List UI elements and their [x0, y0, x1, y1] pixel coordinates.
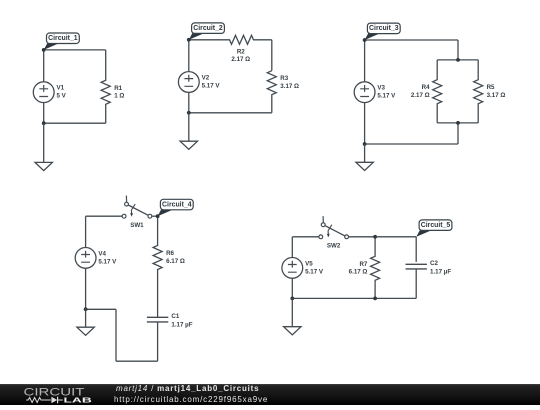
ground — [77, 309, 94, 335]
wire — [271, 40, 273, 71]
svg-text:SW1: SW1 — [130, 222, 144, 229]
svg-text:6.17 Ω: 6.17 Ω — [166, 258, 185, 265]
svg-text:Circuit_2: Circuit_2 — [193, 25, 223, 32]
svg-text:5.17 V: 5.17 V — [202, 82, 221, 89]
wire — [188, 92, 190, 112]
svg-text:Circuit_4: Circuit_4 — [162, 201, 192, 208]
svg-text:6.17 Ω: 6.17 Ω — [349, 269, 368, 276]
wire — [86, 308, 116, 310]
svg-text:V2: V2 — [202, 75, 210, 82]
svg-text:Circuit_3: Circuit_3 — [369, 25, 399, 32]
wire — [85, 268, 87, 309]
svg-text:R3: R3 — [280, 75, 288, 82]
svg-text:2.17 Ω: 2.17 Ω — [231, 56, 250, 63]
wire — [157, 322, 159, 361]
label tag Circuit_1 — [44, 33, 80, 50]
svg-text:3.17 Ω: 3.17 Ω — [280, 83, 299, 90]
svg-text:2.17 Ω: 2.17 Ω — [411, 92, 430, 99]
wire — [437, 59, 478, 61]
node c2 top — [187, 38, 191, 42]
svg-text:V3: V3 — [377, 85, 385, 92]
svg-text:1.17 µF: 1.17 µF — [430, 268, 451, 275]
label tag Circuit_5 — [416, 220, 452, 237]
svg-text:R1: R1 — [114, 85, 122, 92]
node c3 par top — [456, 58, 460, 62]
wire — [457, 40, 459, 60]
svg-text:R7: R7 — [359, 261, 367, 268]
svg-text:V5: V5 — [305, 260, 313, 267]
resistor R5 3.17 Ω — [474, 60, 483, 123]
svg-text:V1: V1 — [57, 85, 65, 92]
logo resistor zigzag — [26, 398, 51, 403]
wire — [44, 122, 106, 124]
wire — [189, 112, 272, 114]
capacitor C1 1.17 µF — [147, 317, 168, 322]
wire — [115, 309, 117, 361]
wire — [291, 278, 293, 298]
ground — [284, 298, 301, 335]
ground — [35, 123, 52, 170]
resistor R4 2.17 Ω — [433, 60, 442, 123]
voltage source V2 — [178, 72, 199, 93]
wire — [85, 216, 87, 247]
wire — [349, 236, 417, 238]
svg-text:R2: R2 — [237, 48, 245, 55]
wire — [152, 215, 158, 217]
wire — [365, 39, 458, 41]
node c3 top — [363, 38, 367, 42]
svg-text:http://circuitlab.com/c229f965: http://circuitlab.com/c229f965xa9ve — [114, 395, 268, 404]
svg-text:R5: R5 — [487, 84, 495, 91]
node c5 r7 bottom — [373, 297, 377, 301]
ground — [180, 113, 197, 150]
svg-text:1 Ω: 1 Ω — [114, 93, 124, 100]
label tag Circuit_2 — [189, 23, 225, 40]
svg-text:1.17 µF: 1.17 µF — [171, 321, 192, 328]
svg-text:V4: V4 — [98, 250, 106, 257]
node c4 top right — [156, 214, 160, 218]
voltage source V1 — [33, 82, 54, 103]
svg-text:5.17 V: 5.17 V — [98, 258, 117, 265]
svg-text:martj14 / martj14_Lab0_Circuit: martj14 / martj14_Lab0_Circuits — [116, 384, 259, 393]
switch SW1 — [122, 196, 152, 219]
voltage source V5 — [282, 258, 303, 279]
logo diode — [51, 397, 57, 404]
voltage source V4 — [75, 248, 96, 269]
wire — [364, 103, 366, 144]
wire — [188, 40, 190, 72]
wire — [365, 143, 458, 145]
wire — [437, 122, 478, 124]
wire — [44, 49, 106, 51]
svg-text:Circuit_5: Circuit_5 — [421, 222, 451, 229]
wire — [364, 40, 366, 82]
wire — [86, 215, 123, 217]
label tag Circuit_3 — [365, 23, 401, 40]
wire — [415, 269, 417, 299]
wire — [415, 237, 417, 262]
svg-text:C1: C1 — [171, 313, 179, 320]
wire — [116, 360, 158, 362]
wire — [291, 237, 293, 258]
svg-text:R6: R6 — [166, 250, 174, 257]
wire — [292, 236, 319, 238]
resistor R6 6.17 Ω — [153, 216, 162, 317]
svg-text:Circuit_1: Circuit_1 — [48, 35, 78, 42]
wire — [457, 123, 459, 144]
svg-text:R4: R4 — [422, 84, 430, 91]
voltage source V3 — [354, 82, 375, 103]
svg-text:3.17 Ω: 3.17 Ω — [487, 92, 506, 99]
svg-text:5.17 V: 5.17 V — [377, 93, 396, 100]
svg-text:C2: C2 — [430, 260, 438, 267]
footer bar — [0, 384, 540, 405]
svg-text:5.17 V: 5.17 V — [305, 268, 324, 275]
resistor R2 2.17 Ω — [189, 35, 272, 44]
wire — [43, 50, 45, 82]
capacitor C2 1.17 µF — [406, 264, 427, 269]
wire — [43, 103, 45, 124]
svg-text:SW2: SW2 — [327, 243, 341, 250]
resistor R1 1 Ω — [101, 50, 110, 123]
switch SW2 — [319, 216, 349, 239]
ground — [356, 144, 373, 171]
resistor R7 6.17 Ω — [371, 237, 380, 299]
node c1 top — [42, 48, 46, 52]
svg-text:LAB: LAB — [64, 397, 92, 404]
resistor R3 3.17 Ω — [267, 71, 276, 113]
wire — [292, 297, 416, 299]
node c5 bottom — [290, 297, 294, 301]
svg-text:5 V: 5 V — [57, 93, 67, 100]
node c4 bottom — [84, 307, 88, 311]
node c5 top — [373, 235, 377, 239]
label tag Circuit_4 — [158, 199, 194, 216]
node c2 bottom — [187, 111, 191, 115]
node c3 par bottom — [456, 121, 460, 125]
node c1 bottom — [42, 121, 46, 125]
node c3 bottom — [363, 142, 367, 146]
